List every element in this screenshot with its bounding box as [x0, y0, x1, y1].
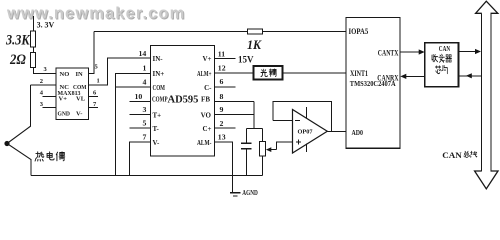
svg-text:AD595: AD595 [168, 94, 199, 105]
svg-text:CAN: CAN [442, 150, 462, 160]
svg-text:7: 7 [93, 101, 97, 108]
svg-text:V-: V- [76, 110, 82, 117]
svg-text:C-: C- [204, 84, 212, 92]
wire CANRX arrow from CAN transceiver [400, 74, 424, 79]
chip U5 DSP TMS320C2407A [346, 17, 400, 148]
pin 2 label + stub (AD595 C+) [215, 119, 236, 128]
svg-text:OP07: OP07 [298, 129, 313, 136]
svg-text:ALM+: ALM+ [197, 70, 212, 78]
pin 4 label + wire (AD595 COM) [116, 77, 151, 87]
svg-text:14: 14 [139, 49, 147, 58]
pin 13 label + wire (AD595 ALM-) to AGND [215, 133, 233, 193]
svg-text:C+: C+ [202, 125, 211, 133]
pin 7 label + stub (MAX V-) [89, 101, 99, 108]
svg-text:V-: V- [153, 139, 161, 147]
pin 9 label + wire (AD595 VO) [215, 102, 255, 129]
svg-text:1: 1 [143, 64, 147, 73]
svg-text:7: 7 [143, 132, 147, 141]
svg-text:COMP: COMP [152, 96, 168, 104]
svg-text:VO: VO [201, 111, 212, 119]
svg-text:COM: COM [153, 84, 166, 92]
svg-text:AGND: AGND [242, 188, 258, 197]
svg-text:6: 6 [220, 77, 224, 86]
svg-text:XINT1: XINT1 [350, 69, 368, 78]
svg-text:www.newmaker.com: www.newmaker.com [6, 5, 185, 23]
pin 8 label + wire (AD595 FB) [215, 92, 255, 101]
svg-text:IN-: IN- [153, 55, 164, 63]
svg-text:12: 12 [218, 64, 226, 73]
svg-text:T-: T- [153, 125, 160, 133]
svg-text:2: 2 [220, 119, 224, 128]
svg-text:11: 11 [218, 49, 225, 58]
svg-text:IOPA5: IOPA5 [349, 27, 369, 36]
wire CAN TX arrow to bus [459, 49, 482, 54]
chip U2 AD595 [151, 46, 215, 157]
svg-text:6: 6 [93, 90, 97, 97]
svg-text:8: 8 [220, 92, 224, 101]
svg-text:NO: NO [60, 71, 70, 78]
svg-text:5: 5 [143, 119, 147, 128]
svg-text:ALM-: ALM- [197, 139, 212, 147]
svg-text:9: 9 [220, 105, 224, 114]
pin 1 label + wire (MAX COM) to AD595 IN- [89, 58, 151, 85]
pin 5 label + stub (AD595 T-) [130, 119, 151, 129]
wire between R1 and R2 [33, 47, 35, 53]
pin 5 label + wire (MAX IN) up to top rail [89, 32, 99, 74]
svg-text:3.3K: 3.3K [5, 32, 30, 48]
svg-text:13: 13 [218, 133, 226, 142]
wire VO junction to cap and pot tops [246, 128, 262, 130]
label 热电偶 (thermocouple) [35, 152, 65, 161]
svg-text:3: 3 [40, 101, 44, 108]
svg-text:3: 3 [44, 66, 48, 73]
svg-text:VL: VL [76, 96, 86, 103]
pin 2 label + wire (MAX NC) [31, 78, 57, 85]
pin 10 label + stub (AD595 COMP) [130, 92, 151, 102]
label CAN总线 (CAN bus) [442, 150, 477, 160]
svg-text:2: 2 [40, 78, 43, 85]
svg-text:10: 10 [135, 92, 143, 101]
svg-text:1K: 1K [247, 37, 262, 52]
watermark www.newmaker.com [6, 5, 186, 24]
svg-text:3: 3 [143, 105, 147, 114]
resistor R3 1K with top rail [94, 29, 346, 52]
svg-text:1: 1 [97, 78, 100, 85]
op-amp U4 OP07 [273, 102, 346, 154]
svg-text:AD0: AD0 [352, 128, 364, 137]
pin 11 label + stub (AD595 V+) to 15V [215, 49, 236, 58]
svg-text:IN+: IN+ [153, 70, 165, 78]
optocoupler U3 光耦 [253, 66, 282, 80]
svg-text:5: 5 [95, 64, 99, 71]
svg-text:CAN: CAN [439, 44, 451, 53]
svg-text:CANRX: CANRX [377, 74, 398, 83]
pin 3 label + stub (MAX GND) [40, 101, 56, 108]
CAN bus double arrow [475, 1, 498, 189]
svg-text:4: 4 [143, 77, 147, 86]
svg-text:FB: FB [201, 96, 210, 104]
wire 3.3V rail down [33, 16, 35, 31]
pin 1 label + wire (AD595 IN+) [116, 64, 151, 176]
pin 6 label + stub (MAX VL) [89, 90, 99, 97]
capacitor C1 [241, 129, 252, 176]
pin 12 label + wire (AD595 ALM+) to DSP XINT1 [215, 64, 347, 73]
ground AGND [230, 188, 258, 197]
svg-text:3. 3V: 3. 3V [37, 19, 56, 29]
thermocouple TC1 [4, 85, 31, 175]
potentiometer RP1 [259, 129, 292, 176]
resistor R2 2Ω [9, 52, 35, 68]
pin 7 label + wire (AD595 V-) down to ground rail [130, 132, 151, 175]
svg-text:V+: V+ [202, 55, 211, 63]
wire R2 to MAX813 pin 3 [34, 68, 57, 74]
wire ground rail (bottom) [31, 174, 262, 176]
svg-text:CANTX: CANTX [378, 48, 399, 57]
svg-text:T+: T+ [153, 111, 162, 119]
pin 6 label + stub (AD595 C-) [215, 77, 236, 87]
chip U1 MAX813 [56, 68, 89, 120]
svg-text:IN: IN [76, 71, 84, 78]
svg-text:4: 4 [40, 90, 44, 97]
svg-text:GND: GND [58, 110, 71, 117]
svg-text:2Ω: 2Ω [9, 52, 26, 68]
resistor R1 3.3K [5, 31, 35, 48]
pin 4 label + stub (MAX V+) [40, 90, 56, 97]
wire CANTX arrow to CAN transceiver [400, 49, 425, 54]
wire CAN RX arrow from bus [459, 73, 482, 78]
pin 3 label + stub (AD595 T+) [130, 105, 151, 115]
svg-text:15V: 15V [238, 55, 254, 65]
chip U6 CAN transceiver 收发器 [425, 43, 459, 87]
svg-text:V+: V+ [59, 96, 68, 103]
